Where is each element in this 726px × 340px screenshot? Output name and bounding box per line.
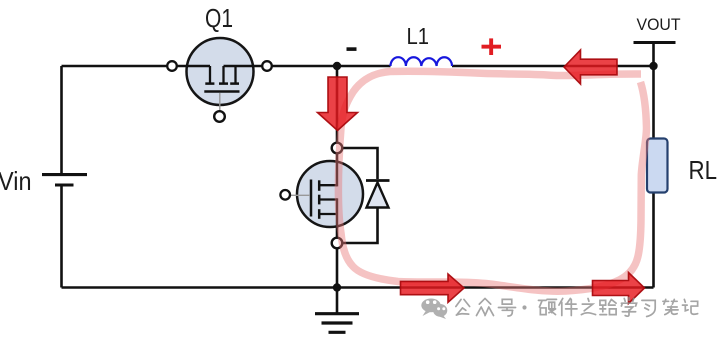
svg-text:VOUT: VOUT <box>637 16 681 34</box>
svg-text:RL: RL <box>689 155 718 185</box>
svg-text:L1: L1 <box>407 23 430 49</box>
svg-text:Q1: Q1 <box>205 3 233 33</box>
svg-text:Vin: Vin <box>0 166 32 196</box>
